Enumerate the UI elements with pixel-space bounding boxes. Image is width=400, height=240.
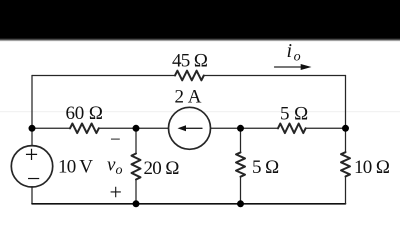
- resistor R 45ohm (top): [175, 71, 204, 81]
- svg-text:20 Ω: 20 Ω: [144, 158, 180, 179]
- node E dot (bottom of 20ohm): [133, 200, 140, 207]
- i_o arrow: [275, 66, 304, 68]
- svg-text:60 Ω: 60 Ω: [66, 103, 104, 124]
- node D dot (right): [342, 125, 349, 132]
- current source arrow (pointing left): [181, 127, 202, 129]
- wire: middle between current source and node C: [211, 127, 279, 129]
- wire: middle right of 5ohm to node D: [306, 127, 346, 129]
- resistor R 20ohm vertical: top wire: [135, 128, 137, 153]
- svg-text:10 V: 10 V: [58, 157, 93, 178]
- wire: V1 bottom to bottom wire: [31, 187, 33, 204]
- wire: top-left vertical (node A to top wire): [31, 76, 33, 129]
- node C dot (top of 5ohm vertical): [237, 125, 244, 132]
- resistor R 5ohm vertical zigzag: [236, 152, 245, 176]
- node A dot: [29, 125, 36, 132]
- resistor R 5ohm vertical: top wire: [240, 128, 242, 152]
- resistor R 20ohm zigzag: [132, 154, 141, 180]
- wire: node A to V1 top: [31, 128, 33, 146]
- wire: top horizontal left of R 45: [32, 75, 175, 77]
- wire: middle left segment: [32, 127, 70, 129]
- svg-text:10 Ω: 10 Ω: [354, 157, 390, 178]
- svg-text:−: −: [110, 130, 120, 151]
- svg-text:5 Ω: 5 Ω: [252, 157, 279, 178]
- resistor R 60ohm (middle-left): [70, 124, 99, 134]
- svg-text:5 Ω: 5 Ω: [280, 104, 308, 125]
- wire: 10ohm bottom: [345, 176, 347, 203]
- node F dot (bottom of 5ohm vertical): [237, 200, 244, 207]
- resistor R 10ohm vertical: top wire: [345, 128, 347, 152]
- top black banner: [0, 0, 400, 38]
- faint scanner streak: [0, 111, 400, 112]
- node B dot (top of 20ohm): [133, 125, 140, 132]
- svg-text:2 A: 2 A: [175, 87, 202, 108]
- svg-text:+: +: [110, 180, 122, 205]
- resistor R 10ohm zigzag: [341, 152, 350, 176]
- voltage source V1 10V circle: [11, 146, 52, 187]
- svg-text:+: +: [25, 143, 38, 169]
- resistor R 5ohm (middle-right horizontal): [278, 124, 306, 134]
- svg-text:−: −: [27, 167, 40, 193]
- wire: top horizontal right of R 45: [204, 75, 346, 77]
- wire: middle between 60ohm and node B: [99, 127, 169, 129]
- wire: right vertical from top wire to node D: [345, 76, 347, 129]
- wire: 20ohm bottom: [135, 180, 137, 204]
- current source I1 2A circle: [169, 107, 211, 149]
- svg-text:45 Ω: 45 Ω: [172, 51, 208, 72]
- wire: 5ohm vertical bottom: [240, 177, 242, 204]
- bottom wire: [32, 203, 346, 205]
